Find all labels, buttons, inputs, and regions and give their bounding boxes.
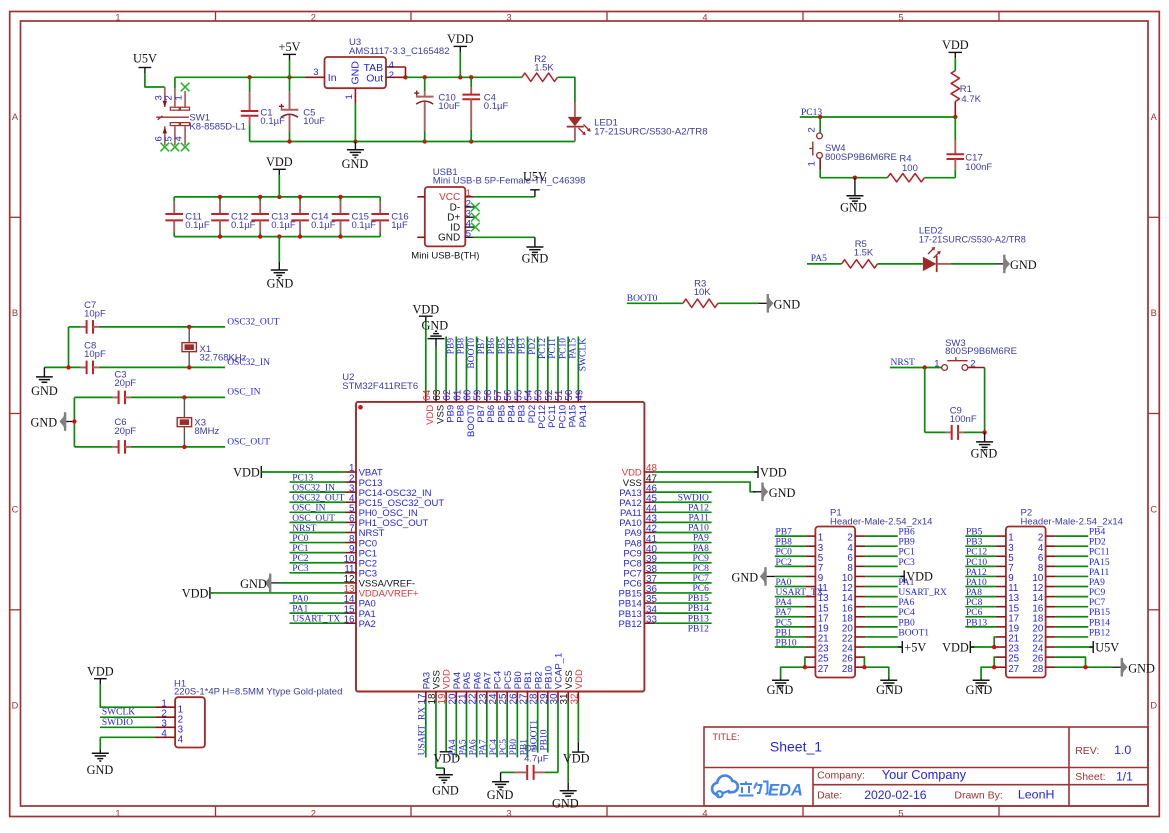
svg-text:VDD: VDD: [906, 570, 933, 584]
svg-text:PA7: PA7: [479, 739, 489, 755]
svg-text:PA1: PA1: [292, 605, 308, 615]
svg-text:PA11: PA11: [1089, 568, 1110, 578]
svg-text:GND: GND: [342, 157, 369, 171]
svg-text:PA7: PA7: [776, 608, 792, 618]
svg-text:800SP9B6M6RE: 800SP9B6M6RE: [945, 346, 1017, 357]
svg-text:100nF: 100nF: [950, 414, 977, 425]
svg-text:PC2: PC2: [776, 558, 793, 568]
svg-text:GND: GND: [438, 233, 460, 244]
svg-text:PC10: PC10: [558, 338, 568, 359]
svg-text:PB0: PB0: [898, 618, 915, 628]
svg-text:0.1µF: 0.1µF: [484, 101, 509, 112]
svg-text:800SP9B6M6RE: 800SP9B6M6RE: [825, 152, 897, 163]
svg-text:VDD: VDD: [760, 465, 787, 479]
svg-text:PC5: PC5: [499, 739, 509, 756]
svg-text:GND: GND: [432, 784, 459, 798]
svg-text:PC9: PC9: [1089, 588, 1106, 598]
svg-text:PC1: PC1: [898, 548, 915, 558]
svg-text:PA12: PA12: [966, 568, 987, 578]
svg-text:USART_TX: USART_TX: [292, 615, 340, 625]
svg-text:2: 2: [311, 12, 316, 22]
svg-text:PC8: PC8: [966, 598, 983, 608]
svg-text:PB7: PB7: [477, 338, 487, 355]
svg-text:1: 1: [115, 809, 120, 819]
svg-text:USART_RX: USART_RX: [418, 707, 428, 756]
svg-text:PC3: PC3: [898, 558, 915, 568]
svg-text:GND: GND: [1128, 661, 1155, 675]
svg-text:C: C: [1150, 504, 1157, 514]
svg-text:PB9: PB9: [898, 538, 915, 548]
svg-text:PA9: PA9: [1089, 578, 1105, 588]
svg-text:PC5: PC5: [776, 618, 793, 628]
svg-text:PB12: PB12: [1089, 628, 1110, 638]
svg-text:OSC_IN: OSC_IN: [292, 504, 325, 514]
svg-text:49: 49: [574, 390, 585, 401]
svg-text:Date:: Date:: [817, 790, 842, 802]
svg-text:1µF: 1µF: [391, 220, 408, 231]
svg-text:VDD: VDD: [574, 669, 585, 689]
svg-text:C: C: [12, 504, 19, 514]
svg-text:PC6: PC6: [966, 608, 983, 618]
svg-text:PC12: PC12: [966, 548, 987, 558]
svg-text:GND: GND: [522, 252, 549, 266]
svg-text:EDA: EDA: [768, 782, 803, 800]
svg-text:4: 4: [161, 729, 167, 740]
svg-text:4.7K: 4.7K: [961, 94, 981, 105]
svg-text:VDD: VDD: [412, 302, 439, 316]
svg-text:VDD: VDD: [942, 38, 969, 52]
svg-text:PA0: PA0: [292, 594, 308, 604]
svg-text:PC4: PC4: [898, 608, 915, 618]
svg-text:GND: GND: [487, 788, 514, 802]
svg-text:GND: GND: [876, 683, 903, 697]
svg-text:PB7: PB7: [776, 528, 793, 538]
svg-text:PB10: PB10: [776, 638, 797, 648]
svg-text:PC3: PC3: [292, 564, 309, 574]
svg-text:PB12: PB12: [619, 619, 642, 630]
svg-text:4: 4: [702, 809, 707, 819]
svg-text:OSC_IN: OSC_IN: [227, 388, 260, 398]
svg-text:PC11: PC11: [548, 338, 558, 359]
svg-text:GND: GND: [267, 277, 294, 291]
svg-text:PC0: PC0: [292, 534, 309, 544]
svg-text:PA6: PA6: [898, 598, 914, 608]
svg-text:Sheet_1: Sheet_1: [770, 739, 822, 755]
svg-text:5: 5: [466, 229, 471, 240]
svg-text:VDD: VDD: [182, 586, 209, 600]
svg-text:PB9: PB9: [446, 338, 456, 355]
svg-text:OSC32_OUT: OSC32_OUT: [227, 317, 279, 327]
svg-text:2: 2: [807, 127, 818, 132]
svg-text:0.1µF: 0.1µF: [311, 220, 336, 231]
svg-text:U5V: U5V: [523, 169, 547, 183]
svg-text:PA2: PA2: [359, 619, 376, 630]
svg-text:PB3: PB3: [518, 338, 528, 355]
svg-text:Out: Out: [366, 72, 383, 84]
svg-text:Company:: Company:: [817, 769, 865, 781]
svg-text:1: 1: [807, 161, 818, 166]
svg-text:PD2: PD2: [528, 338, 538, 355]
svg-text:PB12: PB12: [688, 624, 709, 634]
svg-text:LeonH: LeonH: [1018, 788, 1055, 802]
svg-text:0.1µF: 0.1µF: [352, 220, 377, 231]
svg-text:OSC32_OUT: OSC32_OUT: [292, 494, 344, 504]
svg-text:1.5K: 1.5K: [854, 248, 874, 259]
svg-text:10pF: 10pF: [84, 308, 106, 319]
svg-text:GND: GND: [421, 318, 448, 332]
svg-text:GND: GND: [774, 298, 801, 312]
svg-text:PC12: PC12: [538, 338, 548, 359]
svg-text:100nF: 100nF: [965, 162, 992, 173]
svg-text:PB4: PB4: [507, 338, 517, 355]
svg-text:OSC32_IN: OSC32_IN: [227, 358, 270, 368]
svg-text:27: 27: [818, 664, 829, 675]
svg-text:VDD: VDD: [87, 665, 114, 679]
svg-text:PC1: PC1: [292, 544, 309, 554]
svg-text:GND: GND: [840, 201, 867, 215]
svg-text:PC13: PC13: [292, 473, 313, 483]
svg-text:PA14: PA14: [578, 405, 589, 428]
svg-text:VDD: VDD: [942, 640, 969, 654]
svg-text:20pF: 20pF: [114, 426, 136, 437]
svg-text:10uF: 10uF: [303, 116, 325, 127]
svg-text:+5V: +5V: [904, 640, 926, 654]
svg-text:PB5: PB5: [966, 528, 983, 538]
svg-text:SWDIO: SWDIO: [102, 718, 133, 728]
svg-text:16: 16: [344, 614, 355, 625]
svg-text:3: 3: [506, 12, 511, 22]
svg-text:OSC_OUT: OSC_OUT: [227, 437, 270, 447]
svg-text:GND: GND: [87, 763, 114, 777]
svg-text:27: 27: [1008, 664, 1019, 675]
svg-text:SWCLK: SWCLK: [579, 338, 589, 371]
svg-text:REV:: REV:: [1075, 745, 1099, 757]
svg-text:OSC32_IN: OSC32_IN: [292, 484, 335, 494]
svg-text:PB0: PB0: [509, 739, 519, 756]
svg-text:1: 1: [344, 94, 355, 99]
svg-text:A: A: [1151, 112, 1158, 122]
svg-text:5: 5: [898, 809, 903, 819]
svg-text:A: A: [12, 112, 19, 122]
svg-text:10uF: 10uF: [438, 101, 460, 112]
svg-text:1/1: 1/1: [1116, 769, 1133, 783]
svg-text:17-21SURC/S530-A2/TR8: 17-21SURC/S530-A2/TR8: [594, 126, 708, 137]
svg-text:U5V: U5V: [133, 51, 157, 65]
svg-text:GND: GND: [31, 384, 58, 398]
svg-text:4: 4: [178, 735, 184, 746]
svg-text:USART_RX: USART_RX: [898, 588, 947, 598]
svg-text:VDD: VDD: [433, 752, 460, 766]
svg-text:NRST: NRST: [292, 524, 316, 534]
svg-text:GND: GND: [767, 683, 794, 697]
svg-text:BOOT0: BOOT0: [467, 338, 477, 369]
svg-text:5: 5: [898, 12, 903, 22]
svg-text:PA8: PA8: [966, 588, 982, 598]
svg-text:GND: GND: [769, 486, 796, 500]
svg-text:PC7: PC7: [1089, 598, 1106, 608]
svg-text:B: B: [12, 308, 18, 318]
svg-text:PB13: PB13: [966, 618, 987, 628]
svg-text:10pF: 10pF: [84, 349, 106, 360]
svg-text:STM32F411RET6: STM32F411RET6: [342, 381, 418, 392]
svg-text:PB1: PB1: [776, 628, 793, 638]
svg-text:2020-02-16: 2020-02-16: [864, 788, 927, 802]
svg-text:GND: GND: [732, 571, 759, 585]
svg-text:PA10: PA10: [966, 578, 987, 588]
svg-text:OSC_OUT: OSC_OUT: [292, 514, 335, 524]
svg-text:3: 3: [506, 809, 511, 819]
svg-text:VDD: VDD: [563, 752, 590, 766]
svg-text:+5V: +5V: [279, 40, 301, 54]
svg-text:1: 1: [174, 95, 185, 100]
svg-text:1: 1: [934, 358, 939, 369]
svg-text:NRST: NRST: [891, 358, 915, 368]
svg-text:SWCLK: SWCLK: [102, 707, 135, 717]
svg-text:GND: GND: [966, 683, 993, 697]
svg-text:USART_TX: USART_TX: [776, 588, 824, 598]
svg-text:GND: GND: [349, 61, 361, 85]
svg-text:Drawn By:: Drawn By:: [954, 790, 1002, 802]
svg-text:1.0: 1.0: [1114, 743, 1131, 757]
svg-text:GND: GND: [31, 416, 58, 430]
svg-text:20pF: 20pF: [114, 378, 136, 389]
svg-text:PA15: PA15: [568, 338, 578, 359]
svg-text:U5V: U5V: [1095, 640, 1119, 654]
svg-text:BOOT0: BOOT0: [627, 294, 658, 304]
svg-text:GND: GND: [552, 796, 579, 810]
svg-text:220S-1*4P H=8.5MM Ytype Gold-p: 220S-1*4P H=8.5MM Ytype Gold-plated: [174, 687, 342, 698]
svg-text:28: 28: [1032, 664, 1043, 675]
svg-text:8MHz: 8MHz: [194, 426, 219, 437]
svg-text:BOOT1: BOOT1: [898, 628, 929, 638]
svg-text:VDD: VDD: [233, 465, 260, 479]
svg-text:PB8: PB8: [776, 538, 793, 548]
svg-text:Mini USB-B(TH): Mini USB-B(TH): [411, 250, 479, 261]
svg-text:PB8: PB8: [457, 338, 467, 355]
svg-text:1.5K: 1.5K: [534, 62, 554, 73]
svg-text:In: In: [328, 72, 337, 84]
svg-text:PA4: PA4: [776, 598, 792, 608]
svg-text:PB5: PB5: [497, 338, 507, 355]
svg-text:PB4: PB4: [1089, 528, 1106, 538]
svg-text:10K: 10K: [694, 287, 712, 298]
svg-text:PA15: PA15: [1089, 558, 1110, 568]
svg-text:D: D: [12, 701, 19, 711]
svg-text:17-21SURC/S530-A2/TR8: 17-21SURC/S530-A2/TR8: [919, 234, 1026, 245]
svg-text:PB6: PB6: [487, 338, 497, 355]
svg-text:1: 1: [115, 12, 120, 22]
svg-text:Header-Male-2.54_2x14: Header-Male-2.54_2x14: [830, 517, 932, 528]
svg-text:PC4: PC4: [489, 739, 499, 756]
svg-text:4.7µF: 4.7µF: [524, 754, 549, 765]
svg-text:PC0: PC0: [776, 548, 793, 558]
svg-text:2: 2: [311, 809, 316, 819]
svg-text:PB14: PB14: [1089, 618, 1110, 628]
svg-text:PB3: PB3: [966, 538, 983, 548]
svg-text:Your Company: Your Company: [882, 767, 967, 782]
svg-text:PB6: PB6: [898, 528, 915, 538]
svg-text:Sheet:: Sheet:: [1075, 771, 1105, 783]
svg-text:4: 4: [702, 12, 707, 22]
svg-text:GND: GND: [1010, 258, 1037, 272]
svg-text:4: 4: [174, 136, 185, 141]
svg-text:VDD: VDD: [447, 32, 474, 46]
svg-text:Mini USB-B 5P-Female-TH_C46398: Mini USB-B 5P-Female-TH_C46398: [433, 176, 586, 187]
svg-text:2: 2: [389, 70, 394, 81]
svg-text:0.1µF: 0.1µF: [271, 220, 296, 231]
svg-text:TITLE:: TITLE:: [713, 732, 740, 742]
svg-text:PA0: PA0: [776, 578, 792, 588]
svg-text:PC2: PC2: [292, 554, 309, 564]
svg-text:Header-Male-2.54_2x14: Header-Male-2.54_2x14: [1021, 517, 1123, 528]
svg-text:AMS1117-3.3_C165482: AMS1117-3.3_C165482: [349, 46, 450, 57]
svg-text:PA5: PA5: [811, 254, 827, 264]
svg-text:PA6: PA6: [468, 739, 478, 755]
svg-text:PC11: PC11: [1089, 548, 1110, 558]
svg-text:GND: GND: [971, 447, 998, 461]
svg-text:VDD: VDD: [266, 155, 293, 169]
svg-text:3: 3: [313, 67, 318, 78]
svg-text:B: B: [1151, 308, 1157, 318]
svg-text:D: D: [1150, 701, 1157, 711]
svg-text:28: 28: [842, 664, 853, 675]
svg-text:0.1µF: 0.1µF: [185, 220, 210, 231]
svg-text:100: 100: [902, 163, 918, 174]
svg-text:PB15: PB15: [1089, 608, 1110, 618]
svg-text:0.1µF: 0.1µF: [231, 220, 256, 231]
svg-text:PB10: PB10: [540, 729, 550, 750]
svg-text:K8-8585D-L1: K8-8585D-L1: [189, 121, 246, 132]
svg-text:PD2: PD2: [1089, 538, 1106, 548]
svg-text:GND: GND: [240, 577, 267, 591]
svg-text:PC10: PC10: [966, 558, 987, 568]
